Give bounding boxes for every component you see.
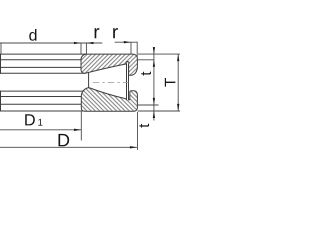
arrowhead D1 (right) xyxy=(74,129,81,131)
locating lip of seating washer (white strip between the rings) xyxy=(126,62,129,100)
arrowhead t bottom (down) xyxy=(153,98,155,105)
dimension line t (vertical) xyxy=(153,47,155,120)
seating washer (lower ring, hatched section) xyxy=(81,88,137,112)
extension tick at left end of d xyxy=(0,43,2,54)
upper washer upper edge-radius tangent line xyxy=(0,59,81,61)
arrowhead t top (up) xyxy=(153,60,155,67)
arrowhead r right (pointing right) xyxy=(124,41,131,43)
label t bottom (rotated 90) xyxy=(139,124,149,128)
extension line at bore (D1 arrow) xyxy=(80,112,82,141)
dimension line T (vertical) xyxy=(177,54,179,111)
dimension line D xyxy=(0,146,137,148)
upper washer lower edge tangent line xyxy=(0,72,85,74)
label r (left) xyxy=(95,28,100,38)
extension line top face (T and t) xyxy=(138,53,180,55)
extension line r right pair inner xyxy=(130,42,132,54)
seating washer left silhouette edge xyxy=(0,91,2,112)
label T (rotated 90) xyxy=(165,78,176,87)
arrowhead T top (up) xyxy=(177,54,179,61)
extension line t upper reference xyxy=(138,59,155,61)
upper washer sphered-bottom silhouette line xyxy=(0,66,81,68)
extension line t lower reference xyxy=(138,104,159,106)
sphered housing washer (upper ring, hatched section) xyxy=(81,54,137,75)
seating washer bottom face line xyxy=(0,110,84,112)
arrowhead t bottom (up) xyxy=(153,111,155,118)
extension line r left pair xyxy=(85,43,87,54)
bore edge between the washers xyxy=(88,73,90,88)
upper washer left silhouette edge xyxy=(0,54,2,74)
dashed center line in gap xyxy=(93,82,129,84)
dimension line r (right) xyxy=(115,41,138,43)
label r (right) xyxy=(113,28,118,38)
arrowhead D (right) xyxy=(130,146,137,148)
label d xyxy=(29,29,36,41)
arrowhead t top (down) xyxy=(153,47,155,54)
dimension line D1 xyxy=(0,129,81,131)
label t top (rotated 90) xyxy=(141,72,151,76)
seating washer lower tangent line xyxy=(0,103,81,105)
label D1 letter D xyxy=(25,114,35,125)
extension line at outside diameter (D arrow) xyxy=(137,112,139,150)
seating washer seat-cone tangent line xyxy=(0,96,81,98)
dimension line d xyxy=(0,42,102,44)
label D1 subscript 1 xyxy=(38,119,42,126)
extension line at bore (d arrow) xyxy=(80,43,82,54)
upper washer top face line (side view) xyxy=(0,53,87,55)
arrowhead T bottom (down) xyxy=(177,104,179,111)
extension line r right pair outer xyxy=(136,42,138,57)
label D xyxy=(58,134,69,146)
arrowhead r left (pointing left) xyxy=(86,42,93,44)
seating washer top rim line (side view) xyxy=(0,90,84,92)
extension line bottom face (T and t) xyxy=(138,110,180,112)
arrowhead d (right) xyxy=(74,42,81,44)
